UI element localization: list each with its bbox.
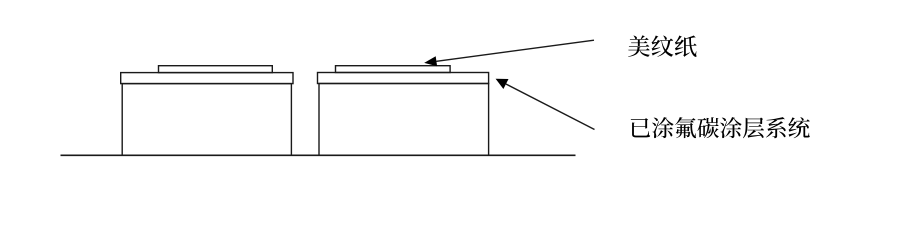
ground baseline [61, 154, 576, 156]
leader line to masking tape label [436, 40, 594, 61]
arrowhead of masking tape leader [424, 56, 437, 66]
left block masking tape strip [159, 66, 273, 73]
left block body [122, 84, 291, 156]
right block coating layer [318, 73, 489, 84]
label text 已涂氟碳涂层系统 (applied fluorocarbon coating system) [631, 117, 810, 138]
leader line to coating system label [506, 84, 595, 130]
label text 美纹纸 (masking tape) [628, 35, 697, 57]
arrowhead of coating system leader [496, 79, 509, 89]
right block body [319, 84, 489, 156]
left block coating layer [121, 73, 293, 84]
right block masking tape strip [336, 66, 451, 73]
